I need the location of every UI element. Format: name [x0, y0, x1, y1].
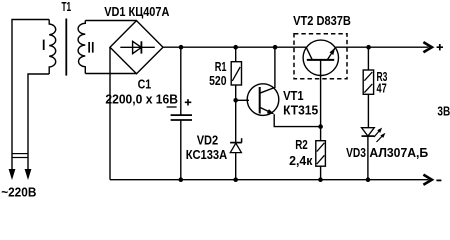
zener VD2 triangle: [230, 143, 241, 152]
underline under 16V: [167, 106, 177, 108]
mains arrow right: [25, 169, 32, 180]
node dot top rail VT1 collector: [273, 45, 278, 50]
label plus output: [437, 44, 443, 50]
resistor R1 wire top: [235, 47, 237, 62]
transistor VT1 circle: [247, 84, 279, 116]
resistor R2 wire top: [320, 127, 322, 141]
wire bridge minus down: [109, 47, 111, 180]
wire secondary top to bridge top vertex: [85, 20, 136, 22]
resistor R2 power slashes: [317, 143, 325, 164]
mains plug crossbar 1: [12, 153, 28, 155]
node dot bottom rail VD2: [233, 177, 238, 182]
wire secondary bottom to bridge bottom vertex: [85, 73, 136, 75]
LED VD3 triangle: [362, 128, 375, 136]
capacitor C1 wire bottom: [180, 120, 182, 180]
zener VD2 wing: [241, 138, 243, 142]
svg-text:C1: C1: [138, 77, 152, 91]
svg-text:VD2: VD2: [197, 133, 219, 147]
LED emission arrow 1: [374, 131, 380, 137]
label minus output: [436, 179, 441, 181]
node dot VT1 emitter - VT2 base - R2: [318, 124, 323, 129]
LED emission arrow 2: [377, 136, 383, 143]
mains plug crossbar 2: [12, 157, 28, 159]
VT2 base bar: [307, 59, 334, 61]
zener VD2 wire bottom: [235, 153, 237, 180]
svg-text:3В: 3В: [437, 105, 450, 119]
resistor R2 wire bottom: [320, 166, 322, 180]
svg-text:520: 520: [209, 74, 226, 88]
dashed box around VT2: [294, 34, 347, 79]
bridge rectifier VD1 diamond: [110, 21, 163, 74]
resistor R2 body: [316, 141, 326, 167]
VT1 base bar: [259, 87, 261, 114]
resistor R1 body: [231, 62, 241, 85]
svg-text:АЛ307А,Б: АЛ307А,Б: [369, 146, 428, 160]
output arrow minus: [423, 175, 432, 185]
capacitor C1 plates: [171, 115, 192, 120]
node dot top rail R3: [366, 45, 371, 50]
svg-text:КТ315: КТ315: [283, 103, 318, 117]
winding I label I: [43, 40, 45, 50]
node dot top rail C1: [179, 45, 184, 50]
svg-text:VD1 КЦ407А: VD1 КЦ407А: [104, 5, 169, 19]
bottom rail: [110, 179, 429, 181]
capacitor C1 wire top: [180, 47, 182, 115]
LED VD3 cathode bar: [362, 135, 375, 137]
svg-text:КС133А: КС133А: [186, 148, 227, 162]
svg-text:2,4к: 2,4к: [289, 154, 313, 168]
node dot bottom rail C1: [179, 177, 184, 182]
svg-text:Т1: Т1: [62, 0, 72, 14]
transistor VT2 circle: [303, 40, 338, 75]
bridge diode line: [120, 46, 155, 48]
VT2 base lead down: [320, 60, 322, 127]
node dot bottom rail R2: [318, 177, 323, 182]
wire mains left vertical and primary top: [12, 20, 49, 171]
top rail left segment: [163, 46, 306, 48]
svg-text:2200,0 х 16В: 2200,0 х 16В: [105, 93, 178, 107]
node dot R1-VD2-VT1 base: [233, 98, 238, 103]
svg-text:VT1: VT1: [283, 89, 304, 103]
zener diode VD2 cathode bar: [230, 142, 242, 144]
VT2 collector line: [306, 47, 312, 60]
transformer core: [65, 19, 67, 76]
resistor R1 wire bottom to zener: [235, 85, 237, 143]
resistor R3 wire top: [367, 47, 369, 70]
svg-text:47: 47: [377, 82, 387, 96]
capacitor C1 plus mark: [185, 99, 192, 105]
resistor R3 body: [363, 70, 373, 94]
resistor R3 wire bottom to LED: [367, 94, 369, 127]
resistor R3 power slashes: [364, 72, 372, 93]
LED VD3 wire bottom: [367, 136, 369, 180]
VT1 emitter arrowhead: [267, 109, 275, 114]
wire node to VT1 base: [236, 99, 249, 101]
svg-text:~220В: ~220В: [1, 186, 36, 197]
mains arrow left: [9, 169, 16, 180]
VT2 emitter arrowhead: [330, 48, 336, 55]
wire primary bottom to mains right: [28, 74, 49, 170]
resistor R1 power slash: [232, 67, 240, 81]
svg-text:R1: R1: [215, 60, 227, 74]
node dot top rail R1: [233, 45, 238, 50]
wire VT1 emitter to base node of VT2: [274, 114, 320, 126]
svg-text:R2: R2: [295, 138, 308, 152]
VT1 collector line to top rail: [260, 47, 275, 93]
VT2 emitter line: [327, 48, 335, 60]
svg-text:VD3: VD3: [346, 146, 366, 160]
bridge diode triangle: [133, 41, 142, 53]
svg-text:VT2 D837В: VT2 D837В: [293, 14, 351, 28]
output arrow plus: [423, 42, 432, 52]
transformer primary winding I: [49, 20, 56, 75]
winding II label II: [88, 42, 90, 53]
transformer secondary winding II: [78, 21, 85, 74]
node dot bottom rail VD3: [366, 177, 371, 182]
VT1 emitter line: [260, 107, 273, 113]
bridge diode cathode bar: [140, 41, 142, 53]
top rail right segment: [335, 46, 428, 48]
